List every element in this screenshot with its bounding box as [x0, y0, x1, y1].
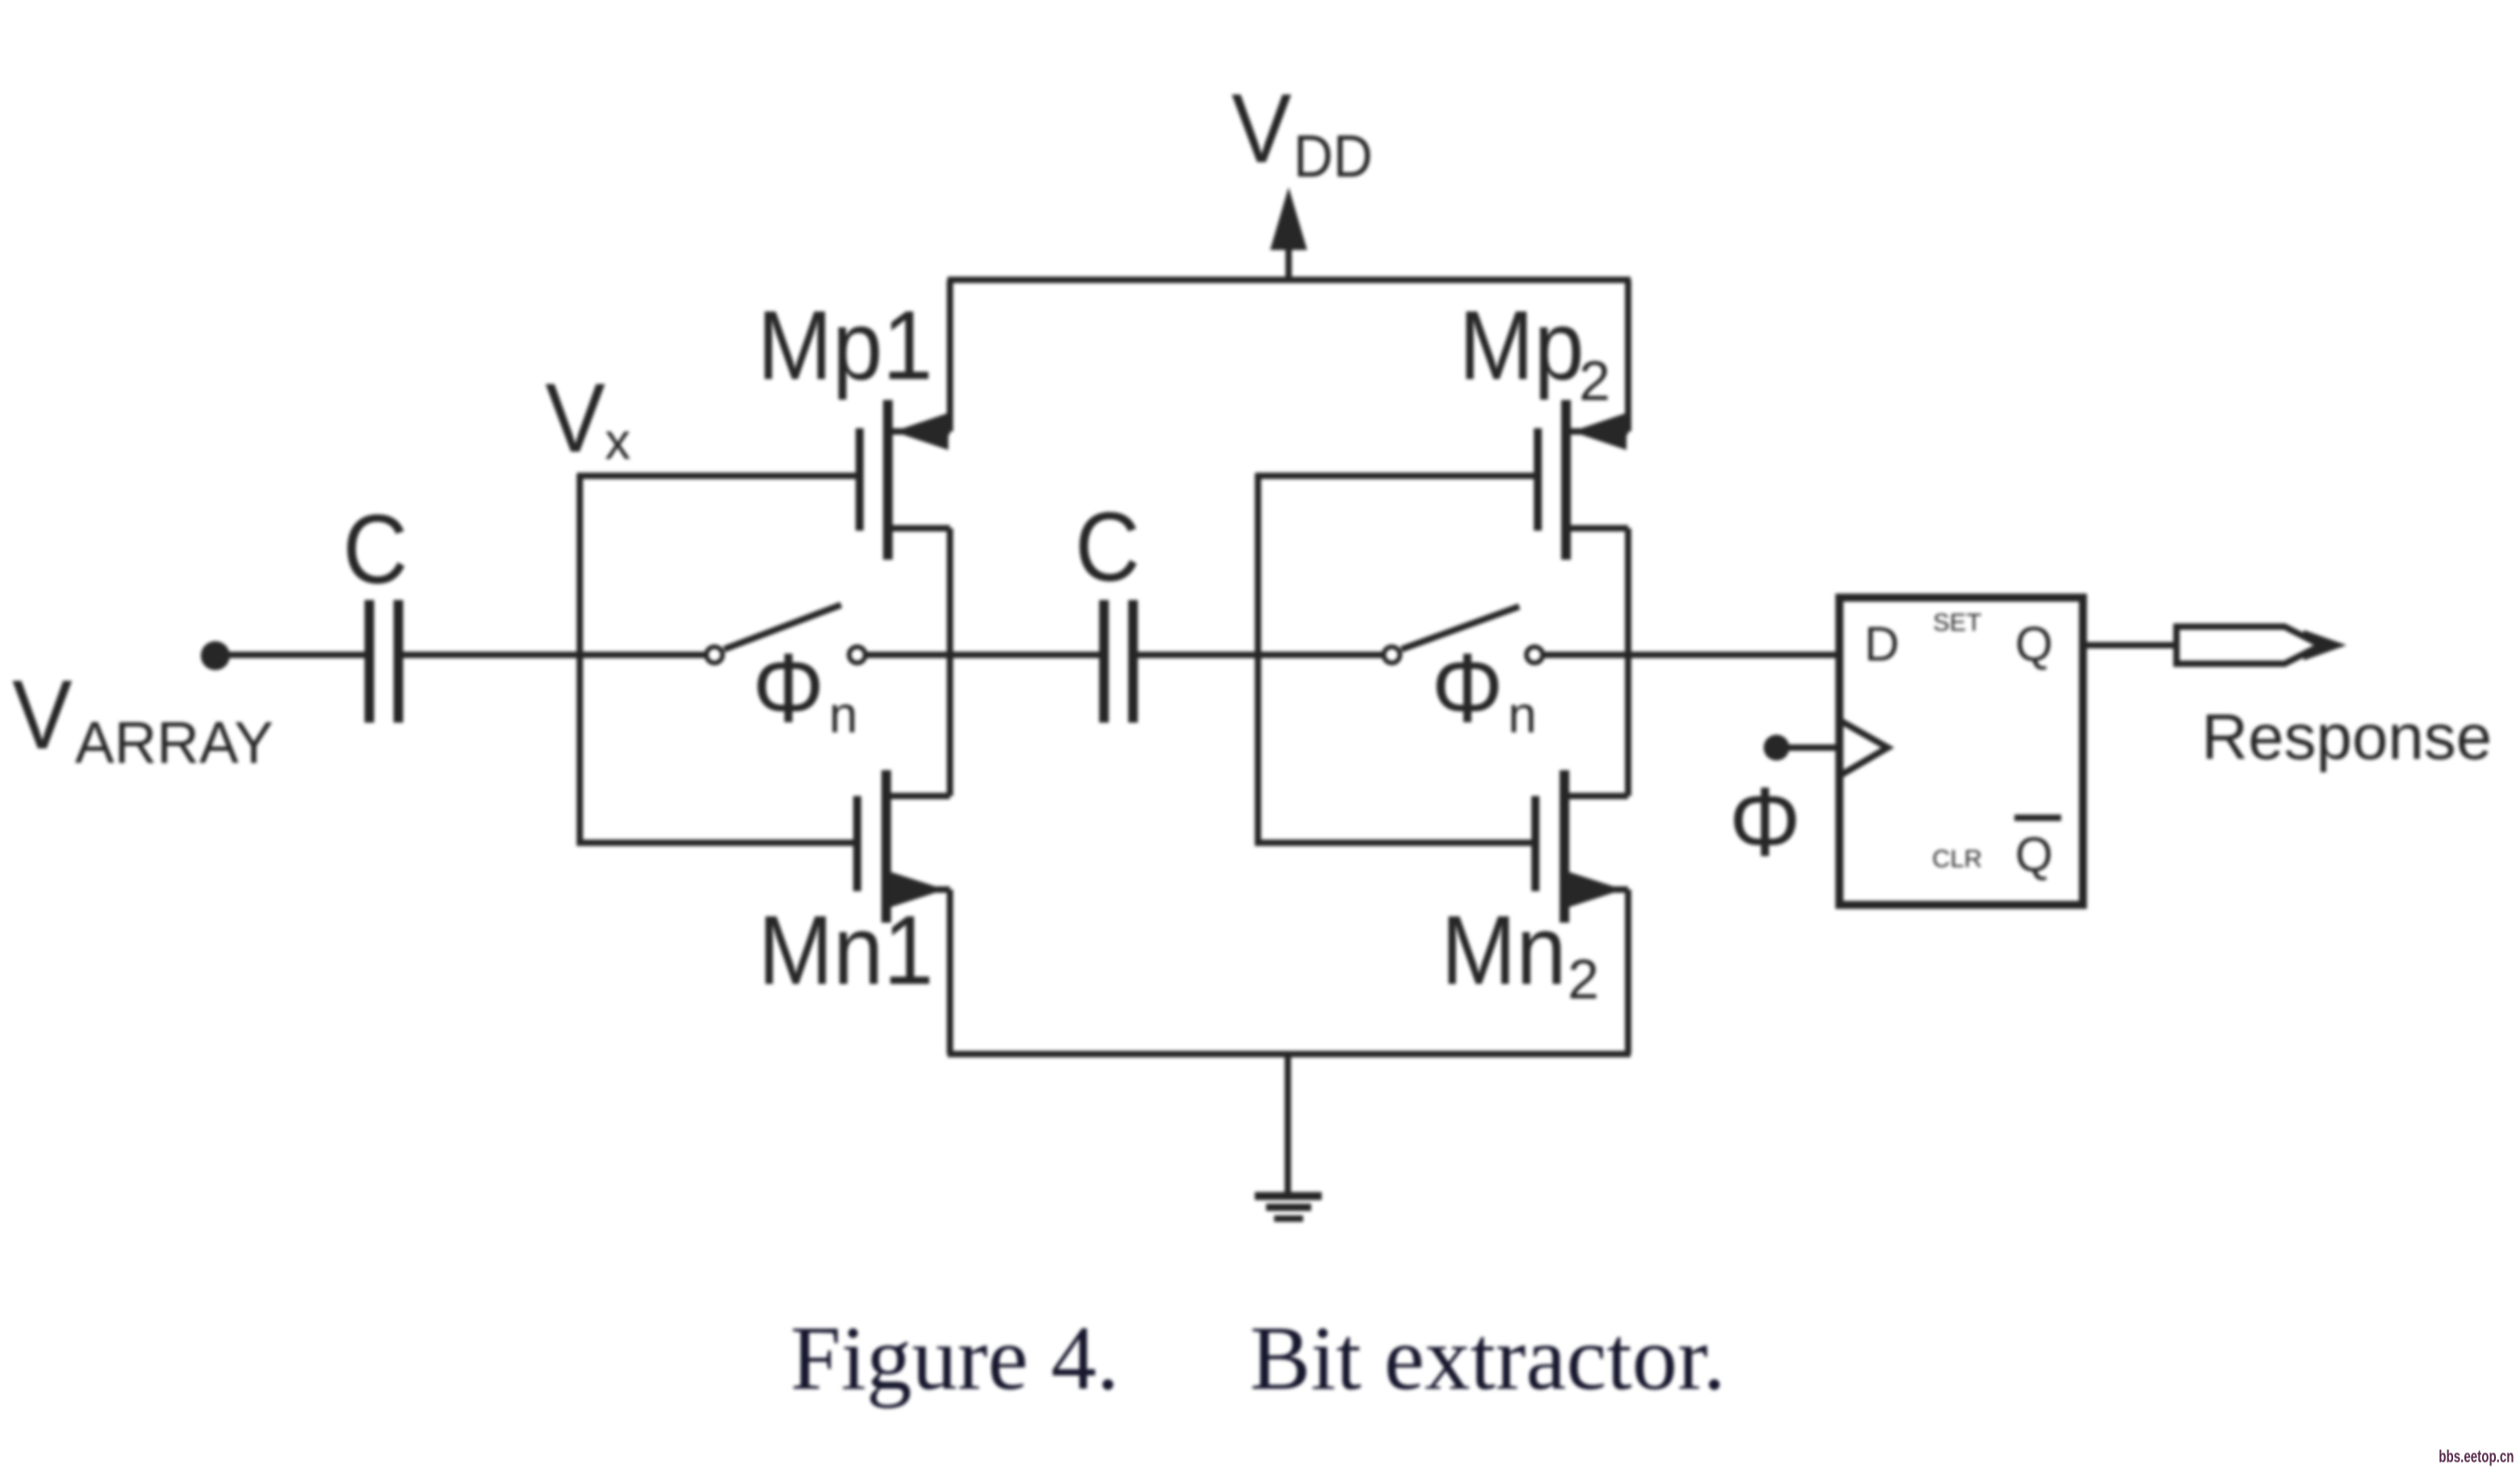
svg-text:V: V	[1231, 73, 1292, 184]
svg-text:Φ: Φ	[1729, 767, 1801, 877]
svg-text:n: n	[1508, 686, 1537, 744]
svg-text:Figure 4.: Figure 4.	[790, 1308, 1119, 1409]
svg-text:Mn1: Mn1	[758, 895, 934, 1006]
svg-text:Mn: Mn	[1441, 895, 1567, 1006]
svg-text:Bit extractor.: Bit extractor.	[1250, 1308, 1726, 1409]
svg-text:D: D	[1864, 617, 1899, 671]
svg-text:V: V	[545, 363, 606, 473]
svg-text:Response: Response	[2201, 701, 2492, 773]
svg-text:Q: Q	[2015, 827, 2053, 881]
svg-text:n: n	[829, 686, 858, 744]
svg-text:Q: Q	[2015, 617, 2053, 671]
svg-text:SET: SET	[1933, 608, 1981, 636]
svg-text:x: x	[605, 412, 631, 470]
svg-text:CLR: CLR	[1932, 844, 1982, 873]
svg-text:Φ: Φ	[752, 633, 824, 744]
svg-text:V: V	[12, 660, 73, 770]
svg-text:Mp1: Mp1	[757, 290, 933, 401]
svg-text:2: 2	[1568, 948, 1599, 1011]
svg-text:Mp: Mp	[1459, 290, 1585, 401]
svg-text:DD: DD	[1293, 123, 1372, 190]
svg-text:2: 2	[1579, 349, 1610, 412]
svg-text:ARRAY: ARRAY	[75, 711, 273, 776]
svg-text:C: C	[1075, 492, 1140, 602]
svg-text:Φ: Φ	[1431, 633, 1503, 744]
svg-text:C: C	[343, 494, 408, 605]
